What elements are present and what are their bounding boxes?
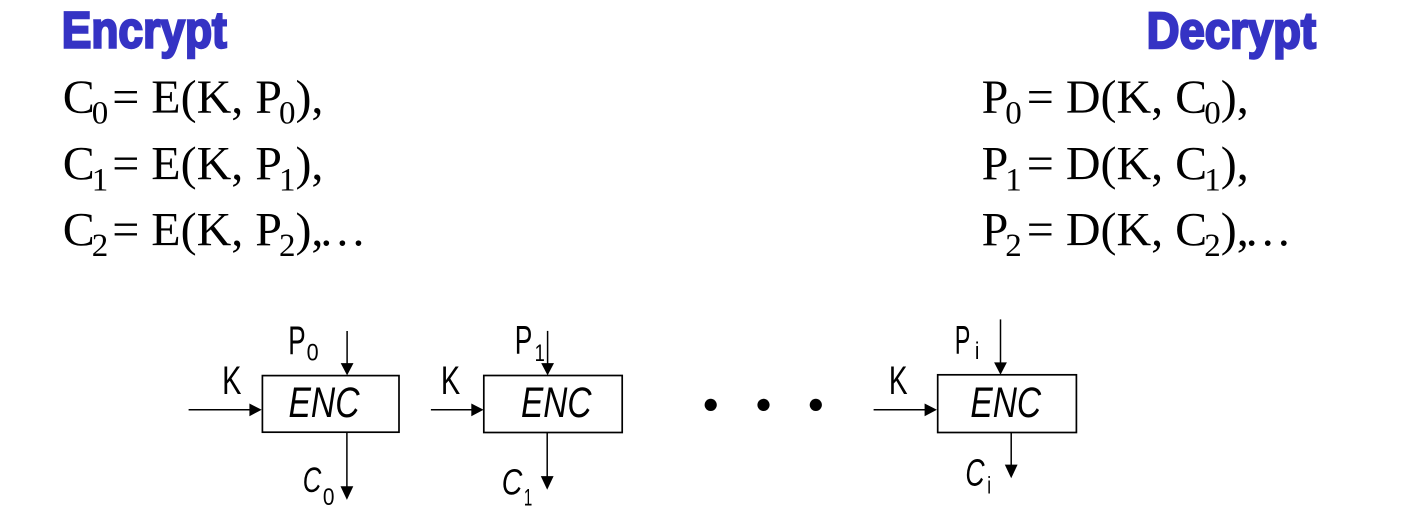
svg-text:Encrypt: Encrypt (62, 2, 227, 59)
svg-text:ENC: ENC (970, 380, 1041, 427)
wire K input arrow into U2 (431, 404, 484, 417)
svg-text:i: i (987, 472, 991, 499)
svg-text:Decrypt: Decrypt (1147, 2, 1317, 59)
ellipsis dots between U2 and U3 (705, 399, 822, 411)
block U2 ENC box (484, 376, 622, 433)
svg-text:0: 0 (307, 340, 319, 367)
block U1 ENC box (262, 376, 399, 433)
svg-text:P0= D(K, C0),: P0= D(K, C0), (982, 71, 1249, 132)
svg-text:K: K (889, 359, 908, 403)
wire K input arrow into U3 (874, 404, 937, 417)
svg-text:C1= E(K, P1),: C1= E(K, P1), (63, 138, 324, 199)
svg-text:K: K (441, 359, 460, 403)
svg-text:C: C (303, 461, 322, 500)
label C1 (502, 461, 533, 511)
label C0 (303, 461, 335, 511)
label Ci (965, 453, 991, 500)
svg-text:i: i (975, 338, 980, 365)
svg-text:K: K (222, 359, 241, 403)
svg-text:ENC: ENC (289, 380, 360, 427)
wire Pi input arrow into U3 (994, 319, 1007, 374)
wire C1 output arrow from U2 (541, 433, 554, 490)
svg-text:C: C (502, 461, 523, 502)
block U3 ENC box (938, 375, 1077, 433)
label P1 (515, 319, 545, 367)
label Pi (955, 319, 980, 365)
svg-text:P2= D(K, C2),…: P2= D(K, C2),… (982, 204, 1292, 265)
svg-text:1: 1 (524, 484, 532, 511)
wire P1 input arrow into U2 (541, 331, 554, 376)
svg-text:C: C (965, 453, 985, 495)
svg-text:P: P (288, 319, 305, 363)
svg-text:C0= E(K, P0),: C0= E(K, P0), (63, 71, 324, 132)
svg-text:P: P (955, 319, 971, 363)
wire K input arrow into U1 (189, 404, 262, 417)
wire Ci output arrow from U3 (1005, 433, 1018, 478)
wire C0 output arrow from U1 (341, 432, 354, 500)
svg-text:P1= D(K, C1),: P1= D(K, C1), (982, 138, 1249, 199)
svg-text:ENC: ENC (521, 380, 592, 427)
wire P0 input arrow into U1 (341, 331, 354, 375)
svg-text:0: 0 (323, 484, 335, 511)
svg-text:1: 1 (535, 340, 545, 367)
svg-text:C2= E(K, P2),…: C2= E(K, P2),… (63, 204, 367, 265)
svg-text:P: P (515, 319, 533, 363)
label P0 (288, 319, 318, 367)
